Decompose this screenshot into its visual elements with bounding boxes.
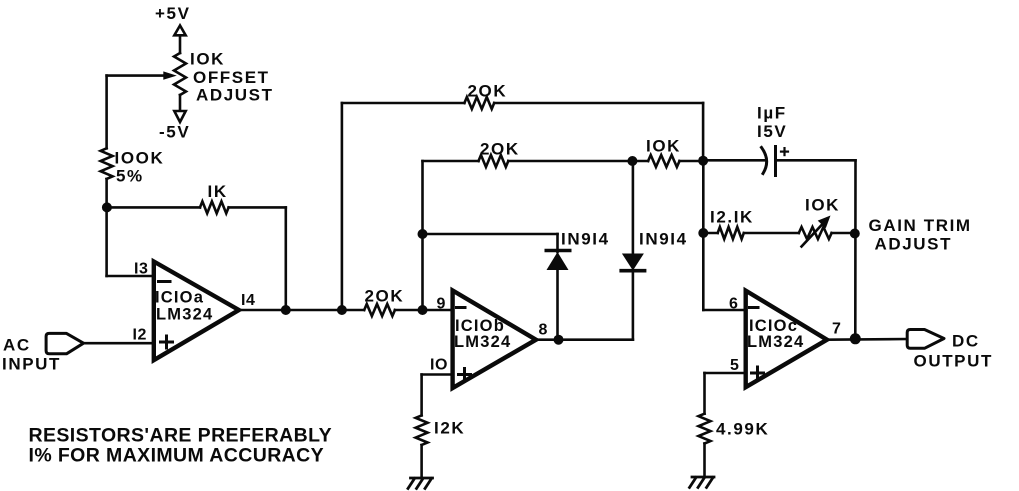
svg-text:AC: AC bbox=[3, 336, 31, 355]
IC10a plus input mark bbox=[161, 341, 173, 344]
wire pin 10 bbox=[422, 373, 453, 376]
wire R5 to D2 node bbox=[508, 160, 632, 163]
svg-text:IOK: IOK bbox=[646, 137, 681, 156]
DC output connector tag bbox=[907, 330, 944, 349]
junction dot pin 9 node bbox=[418, 305, 428, 315]
wire top feedback down to cap node bbox=[702, 103, 705, 161]
wire wiper node down to resistor R2 bbox=[105, 76, 108, 149]
wire R8 to ground bbox=[420, 445, 423, 478]
wire output branch up to top feedback R4 bbox=[341, 103, 344, 310]
svg-text:I2K: I2K bbox=[434, 419, 465, 438]
potentiometer R1 10K OFFSET ADJUST body bbox=[174, 53, 186, 95]
wire pot R1 to -5V bbox=[179, 95, 182, 111]
svg-text:4.99K: 4.99K bbox=[716, 420, 769, 439]
IC10a minus input mark bbox=[159, 280, 171, 283]
svg-text:OUTPUT: OUTPUT bbox=[914, 352, 993, 371]
svg-text:GAIN TRIM: GAIN TRIM bbox=[869, 216, 972, 235]
wire pin 5 bbox=[705, 372, 746, 375]
wire R9 to pot R10 bbox=[744, 232, 799, 235]
wire R3 branch down to IC10a output bbox=[284, 207, 287, 310]
resistor R2 100K 5% bbox=[101, 148, 113, 179]
IC10c minus input mark bbox=[750, 306, 759, 309]
ground symbol under R8 bbox=[408, 478, 433, 489]
junction dot IC10b output / D1 bbox=[554, 335, 564, 345]
svg-text:IOK: IOK bbox=[190, 50, 225, 69]
svg-text:RESISTORS'ARE PREFERABLY: RESISTORS'ARE PREFERABLY bbox=[29, 425, 333, 447]
wire node A down to pin 13 bbox=[105, 207, 108, 276]
svg-text:7: 7 bbox=[832, 321, 841, 338]
resistor R4 20K top feedback bbox=[464, 97, 494, 109]
resistor R9 12.1K bbox=[718, 227, 744, 239]
wire D1 bottom to IC10b output bbox=[556, 270, 559, 340]
svg-text:I3: I3 bbox=[134, 261, 148, 278]
svg-text:LM324: LM324 bbox=[454, 333, 511, 351]
-5V arrow terminal bbox=[174, 111, 185, 122]
svg-text:+5V: +5V bbox=[155, 4, 191, 23]
wire pot R10 to right rail bbox=[832, 232, 855, 235]
wire D2 bottom to IC10b output bbox=[632, 271, 635, 340]
svg-text:I5V: I5V bbox=[757, 122, 787, 141]
svg-text:8: 8 bbox=[539, 322, 548, 339]
wire right rail cap corner down to output node bbox=[854, 160, 857, 338]
wire D2 top vertical bbox=[632, 161, 635, 254]
wire mid rail cap node down to gain node bbox=[702, 161, 705, 233]
+5V arrow terminal bbox=[174, 26, 185, 36]
svg-text:6: 6 bbox=[729, 296, 738, 313]
wire R11 to ground bbox=[703, 444, 706, 478]
wire node A to resistor R3 bbox=[107, 206, 200, 209]
wire AC input to pin 12 bbox=[84, 342, 154, 345]
IC10c plus input mark bbox=[752, 372, 764, 375]
svg-text:LM324: LM324 bbox=[156, 306, 213, 324]
wire IC10b output bbox=[536, 338, 633, 341]
op-amp IC10b triangle bbox=[453, 291, 536, 389]
svg-text:IOK: IOK bbox=[805, 196, 840, 215]
wire second row left segment bbox=[423, 160, 479, 163]
wire capacitor to right rail bbox=[776, 159, 856, 162]
svg-text:IO: IO bbox=[430, 357, 448, 374]
svg-text:I% FOR MAXIMUM ACCURACY: I% FOR MAXIMUM ACCURACY bbox=[29, 445, 325, 467]
wire D1 top from pin9 branch bbox=[423, 233, 558, 236]
svg-text:LM324: LM324 bbox=[747, 333, 804, 351]
svg-text:-5V: -5V bbox=[159, 123, 190, 142]
svg-text:IOOK: IOOK bbox=[115, 149, 165, 168]
resistor R6 20K input to IC10b bbox=[364, 304, 395, 316]
svg-text:I4: I4 bbox=[241, 292, 255, 309]
svg-text:INPUT: INPUT bbox=[2, 355, 61, 374]
wire gain node to R9 bbox=[703, 232, 717, 235]
wire R2 to node A bbox=[105, 179, 108, 208]
junction dot R3 feedback at output bbox=[281, 305, 291, 315]
wire pin 5 down to R11 bbox=[703, 373, 706, 414]
diode D1 1N914 (pointing up) bbox=[546, 249, 569, 253]
svg-text:ADJUST: ADJUST bbox=[875, 235, 953, 254]
junction dot IC10c output node bbox=[850, 333, 861, 344]
wire top feedback right segment bbox=[494, 102, 703, 105]
op-amp IC10c triangle bbox=[746, 291, 827, 388]
wire IC10a output to resistor R6 bbox=[239, 309, 364, 312]
wire IC10c output to DC tag bbox=[827, 338, 907, 341]
svg-text:ICIOa: ICIOa bbox=[155, 289, 204, 307]
svg-text:5%: 5% bbox=[116, 167, 144, 186]
svg-text:5: 5 bbox=[730, 357, 739, 374]
svg-text:OFFSET: OFFSET bbox=[193, 68, 270, 87]
junction dot D2 top node bbox=[627, 156, 637, 166]
IC10b minus input mark bbox=[457, 306, 466, 309]
junction dot gain trim right node bbox=[850, 229, 860, 239]
svg-text:IK: IK bbox=[208, 182, 228, 201]
wire cap node to capacitor C1 bbox=[703, 159, 766, 162]
wire R3 to output branch corner bbox=[229, 206, 286, 209]
wire D2 node to R7 bbox=[632, 160, 648, 163]
R1 wiper arrow bbox=[107, 74, 164, 77]
resistor R11 4.99K bbox=[699, 414, 711, 444]
op-amp IC10a triangle bbox=[154, 262, 239, 361]
wire +5V to pot R1 bbox=[179, 35, 182, 53]
capacitor C1 1uF 15V bbox=[762, 148, 767, 174]
resistor R5 20K bbox=[479, 155, 509, 167]
svg-text:IN9I4: IN9I4 bbox=[639, 230, 688, 249]
svg-text:2OK: 2OK bbox=[480, 140, 520, 159]
resistor R3 1K bbox=[200, 201, 229, 213]
svg-text:ADJUST: ADJUST bbox=[196, 86, 274, 105]
svg-text:2OK: 2OK bbox=[468, 82, 508, 101]
node A junction dot (inverting input net of IC10a) bbox=[102, 202, 112, 212]
wire R7 to mid rail node bbox=[680, 160, 704, 163]
svg-text:9: 9 bbox=[437, 296, 446, 313]
wire R6 to pin 9 bbox=[395, 309, 453, 312]
resistor R8 12K bbox=[416, 415, 428, 445]
svg-text:I2: I2 bbox=[133, 327, 147, 344]
svg-text:IN9I4: IN9I4 bbox=[561, 230, 610, 249]
svg-text:2OK: 2OK bbox=[365, 287, 405, 306]
svg-text:IµF: IµF bbox=[757, 104, 787, 123]
wire top feedback left segment bbox=[342, 102, 465, 105]
wire gain node down to pin 6 bbox=[702, 233, 705, 310]
wire pin 10 down to R8 bbox=[420, 375, 423, 416]
ground symbol under R11 bbox=[690, 477, 715, 488]
wire pin9 node up to R5 bbox=[421, 161, 424, 310]
diode D2 1N914 (pointing down) bbox=[622, 254, 644, 271]
resistor R7 10K bbox=[648, 155, 679, 167]
AC input connector tag bbox=[46, 333, 83, 353]
potentiometer R10 10K gain trim body bbox=[799, 227, 832, 239]
junction dot mid rail cap node bbox=[698, 156, 708, 166]
C1 polarity plus sign bbox=[781, 151, 788, 153]
wire D1 top vertical bbox=[556, 234, 559, 252]
junction dot 20K top feedback at output bbox=[337, 305, 347, 315]
IC10b plus input mark bbox=[459, 373, 471, 376]
svg-text:I2.IK: I2.IK bbox=[710, 208, 754, 227]
wire into pin 6 of IC10c bbox=[703, 309, 745, 312]
junction dot gain trim left node bbox=[698, 228, 708, 238]
wire into pin 13 of IC10a bbox=[107, 275, 154, 278]
svg-text:DC: DC bbox=[952, 332, 980, 351]
junction dot D1 branch bbox=[418, 229, 428, 239]
R10 wiper arrow bbox=[802, 224, 824, 247]
